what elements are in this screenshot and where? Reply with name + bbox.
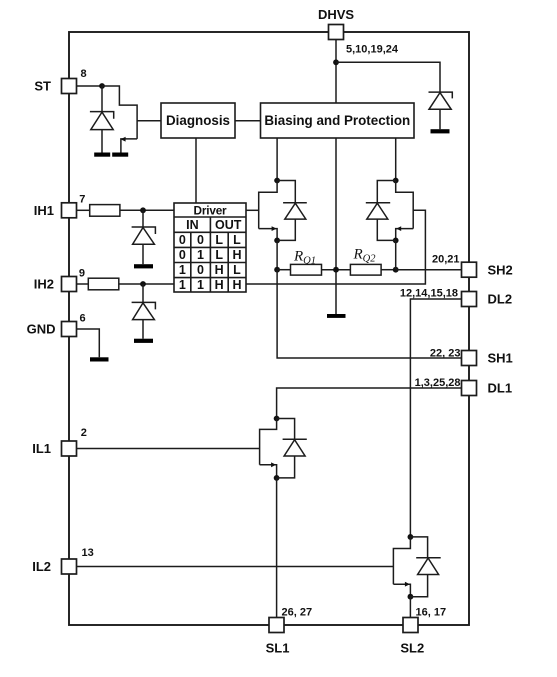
wire Diagnosis to Biasing — [235, 120, 261, 122]
svg-text:1: 1 — [179, 278, 186, 292]
svg-text:SH1: SH1 — [488, 350, 513, 365]
svg-text:22, 23: 22, 23 — [430, 347, 461, 359]
wire Q2 source to SH2 node — [395, 240, 397, 269]
svg-text:1: 1 — [179, 263, 186, 277]
node RQ1 left — [274, 267, 280, 273]
wire RQ2 to SH2 node — [381, 269, 396, 271]
svg-text:IH1: IH1 — [34, 203, 54, 218]
wire Q2 gate to Driver — [246, 210, 425, 284]
svg-text:GND: GND — [27, 322, 56, 337]
svg-text:0: 0 — [179, 248, 186, 262]
svg-text:6: 6 — [80, 312, 86, 324]
svg-text:26, 27: 26, 27 — [282, 607, 313, 619]
svg-text:RQ2: RQ2 — [353, 247, 377, 265]
svg-text:1: 1 — [197, 248, 204, 262]
svg-text:7: 7 — [79, 193, 85, 205]
ground (internal) — [327, 314, 346, 318]
wire IH2 pin to resistor — [77, 283, 89, 285]
ground (ST transistor source) — [112, 153, 128, 157]
pin SL1 (26,27) — [269, 618, 284, 633]
svg-text:Driver: Driver — [194, 204, 228, 218]
transistor Q4 low-side 2 — [393, 534, 413, 600]
svg-text:DL2: DL2 — [488, 291, 513, 306]
zener diode DHVS clamp — [429, 92, 453, 129]
node DHVS junction — [333, 59, 339, 65]
svg-text:Biasing and Protection: Biasing and Protection — [264, 113, 410, 128]
zener diode IH2 clamp — [132, 284, 156, 339]
svg-text:0: 0 — [179, 233, 186, 247]
svg-text:20,21: 20,21 — [432, 253, 460, 265]
block Diagnosis — [161, 103, 235, 138]
wire SH2 node to pin — [396, 269, 462, 271]
pin IL1 (2) — [62, 441, 77, 456]
wire Q1 source to RQ1 node — [276, 240, 278, 269]
pin IH1 (7) — [62, 203, 77, 218]
zener diode IH1 clamp — [132, 210, 156, 264]
wire Q1 gate to Driver — [246, 209, 259, 211]
diode Q3 body — [277, 419, 307, 478]
pin SL2 (16,17) — [403, 618, 418, 633]
node IH1 junction — [140, 207, 146, 213]
svg-text:IH2: IH2 — [34, 277, 54, 292]
svg-text:L: L — [215, 233, 223, 247]
ground (DHVS clamp) — [431, 129, 450, 133]
node ST junction — [99, 83, 105, 89]
svg-text:H: H — [232, 278, 241, 292]
svg-text:16, 17: 16, 17 — [416, 607, 447, 619]
ground (GND pin) — [90, 357, 109, 361]
svg-text:IN: IN — [186, 218, 199, 232]
wire DHVS vertical to Biasing — [335, 40, 337, 104]
transistor Q1 high-side 1 — [259, 178, 280, 244]
resistor RQ1 — [277, 264, 321, 275]
svg-text:0: 0 — [197, 263, 204, 277]
pin SH1 (22,23) — [462, 351, 477, 366]
pin ST (8) — [62, 79, 77, 94]
wire Biasing to Q2 drain — [395, 138, 397, 181]
zener diode ST clamp — [90, 86, 114, 153]
svg-text:SH2: SH2 — [488, 262, 513, 277]
transistor Q2 high-side 2 — [393, 178, 413, 244]
pin SH2 (20,21) — [462, 262, 477, 277]
svg-text:Diagnosis: Diagnosis — [166, 113, 230, 128]
node IH2 junction — [140, 281, 146, 287]
pin DHVS (5,10,19,24) — [329, 25, 344, 40]
wire IL1 pin to Q3 gate — [77, 448, 260, 450]
svg-text:RQ1: RQ1 — [293, 249, 316, 267]
svg-text:0: 0 — [197, 233, 204, 247]
wire IL2 pin to Q4 gate — [77, 566, 394, 568]
wire SH1 from Q1 source node to pin — [277, 270, 461, 358]
svg-text:13: 13 — [82, 547, 94, 559]
resistor IH2 series — [88, 278, 119, 290]
svg-text:H: H — [215, 278, 224, 292]
transistor Q3 low-side 1 — [260, 416, 280, 481]
svg-text:SL2: SL2 — [400, 641, 424, 656]
wire RQ1 to center node — [322, 269, 351, 271]
block Biasing and Protection — [261, 103, 415, 138]
svg-text:L: L — [215, 248, 223, 262]
svg-text:H: H — [215, 263, 224, 277]
svg-text:IL1: IL1 — [32, 441, 51, 456]
wire IH1 pin to resistor — [77, 209, 90, 211]
wire GND pin to ground — [77, 329, 100, 357]
svg-text:L: L — [233, 233, 241, 247]
pin IL2 (13) — [62, 559, 77, 574]
wire ST pin to junction — [77, 85, 103, 87]
resistor IH1 series — [90, 205, 120, 217]
svg-text:1,3,25,28: 1,3,25,28 — [415, 377, 461, 389]
svg-text:2: 2 — [81, 427, 87, 439]
svg-text:IL2: IL2 — [32, 559, 51, 574]
wire resistor to Driver — [119, 283, 174, 285]
svg-text:8: 8 — [81, 68, 87, 80]
ground (IH1 clamp) — [134, 264, 153, 268]
resistor RQ2 — [350, 264, 381, 275]
svg-text:1: 1 — [197, 278, 204, 292]
pin IH2 (9) — [62, 277, 77, 292]
IC boundary — [69, 32, 469, 625]
wire DL1 from pin to Q3 drain — [277, 388, 462, 419]
pin DL1 (1,3,25,28) — [462, 381, 477, 396]
diode Q1 body — [277, 181, 307, 241]
svg-text:DHVS: DHVS — [318, 7, 354, 22]
wire Diagnosis to Driver — [195, 138, 197, 203]
pin DL2 (12,14,15,18) — [462, 292, 477, 307]
ground (IH2 clamp) — [134, 339, 153, 343]
wire Q4 source to SL2 pin — [409, 597, 411, 618]
svg-text:H: H — [232, 248, 241, 262]
ground (ST clamp) — [94, 153, 110, 157]
node center — [333, 267, 339, 273]
transistor ST pull-down — [102, 86, 161, 153]
wire DL2 from pin to Q4 drain — [410, 299, 461, 537]
svg-text:9: 9 — [79, 267, 85, 279]
wire DHVS branch to clamp zener — [336, 62, 440, 92]
svg-text:DL1: DL1 — [488, 380, 513, 395]
svg-text:ST: ST — [34, 79, 51, 94]
wire Biasing to Q1 drain — [276, 138, 278, 181]
svg-text:SL1: SL1 — [266, 641, 290, 656]
pin GND (6) — [62, 322, 77, 337]
diode Q2 body — [366, 181, 396, 241]
wire resistor to Driver — [120, 209, 174, 211]
wire Biasing to internal ground — [335, 138, 337, 314]
diode Q4 body — [410, 537, 440, 597]
block Driver truth table — [174, 203, 246, 292]
svg-text:12,14,15,18: 12,14,15,18 — [400, 287, 458, 299]
svg-text:5,10,19,24: 5,10,19,24 — [346, 44, 399, 56]
wire Q3 source to SL1 pin — [276, 478, 278, 618]
svg-text:L: L — [233, 263, 241, 277]
node SH2 — [393, 267, 399, 273]
svg-text:OUT: OUT — [215, 218, 242, 232]
